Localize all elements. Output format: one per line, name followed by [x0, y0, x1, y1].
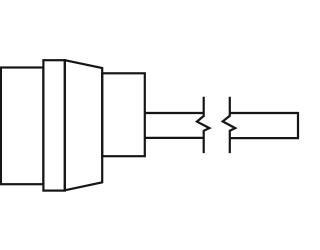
cable right segment (open rectangle)	[230, 113, 298, 138]
flange (narrow tall rectangle)	[43, 60, 64, 190]
left break line (zigzag)	[197, 97, 210, 153]
tapered shell (trapezoid)	[65, 60, 102, 190]
cable top edge (left segment)	[145, 112, 204, 114]
right break line (zigzag)	[223, 97, 236, 153]
cable bottom edge (left segment)	[145, 137, 204, 139]
connector body (large rectangle)	[1, 68, 44, 185]
ferrule (medium rectangle)	[102, 73, 145, 156]
